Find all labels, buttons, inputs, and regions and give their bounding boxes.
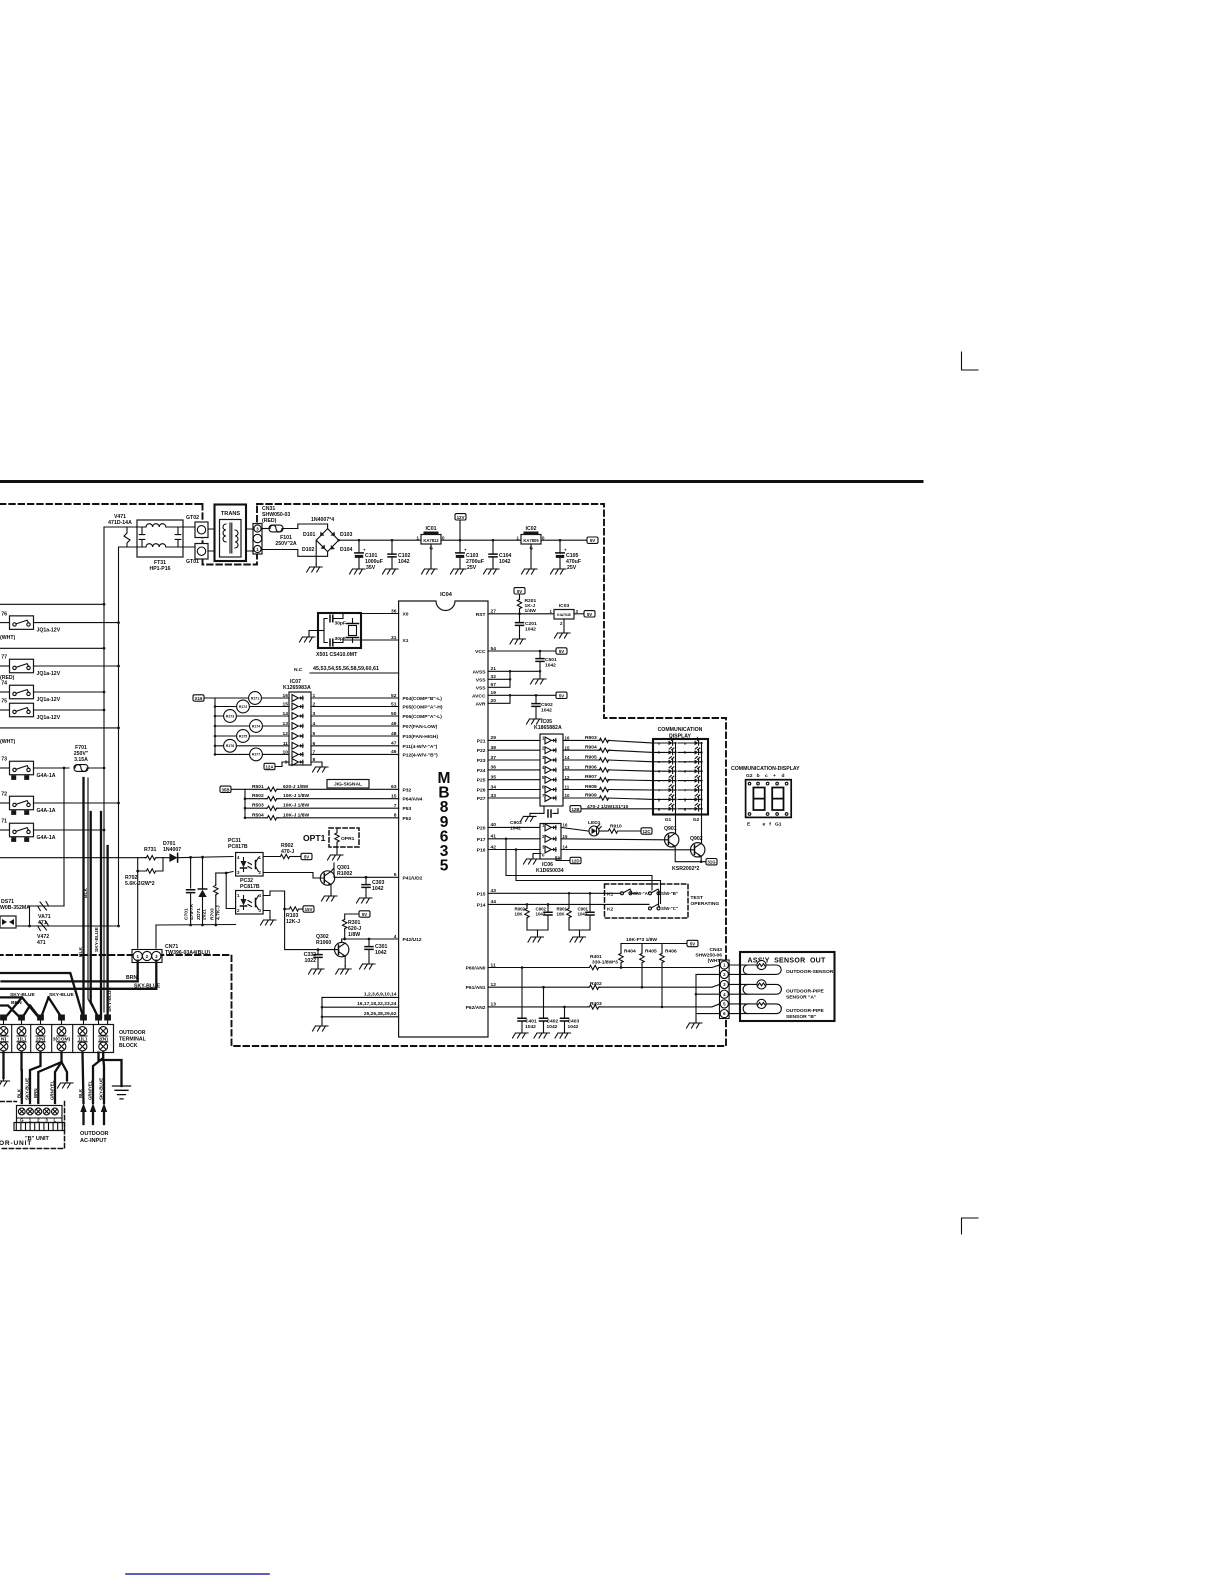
svg-text:27: 27 bbox=[491, 609, 497, 615]
connector CN43 pin 2 bbox=[720, 970, 728, 978]
svg-text:D102: D102 bbox=[302, 547, 315, 553]
buffer IC05 ch4 bbox=[545, 767, 556, 774]
capacitor C403 1042 bbox=[563, 1006, 566, 1009]
svg-text:P53: P53 bbox=[403, 806, 412, 812]
wire col6 to AC arrows bbox=[93, 1053, 104, 1104]
buffer IC07 ch3 bbox=[292, 713, 303, 720]
wire bottom rail to PC32 pin2 bbox=[156, 924, 236, 927]
surge arrester DS71 bbox=[0, 899, 30, 928]
wire R905 to display bbox=[608, 760, 653, 762]
svg-text:12C: 12C bbox=[642, 829, 651, 834]
svg-text:16: 16 bbox=[563, 823, 568, 828]
svg-text:15V: 15V bbox=[305, 907, 313, 912]
svg-text:R904: R904 bbox=[585, 745, 597, 751]
wire P15 line bbox=[488, 892, 621, 894]
wire P21 to IC05 bbox=[488, 739, 540, 741]
svg-text:1042: 1042 bbox=[398, 559, 410, 565]
node corner mark lower right bbox=[962, 1218, 979, 1234]
wire VCC line bbox=[488, 650, 556, 652]
net X16 tag input bus bbox=[193, 695, 204, 701]
node OUTDOOR AC-INPUT arrows bbox=[80, 1103, 86, 1112]
svg-text:Q901: Q901 bbox=[664, 826, 677, 832]
svg-text:71: 71 bbox=[1, 819, 7, 825]
svg-text:5V: 5V bbox=[362, 912, 367, 917]
svg-text:VSS: VSS bbox=[476, 685, 487, 691]
svg-text:44: 44 bbox=[491, 899, 497, 905]
connector CN43 pin 5 bbox=[720, 1000, 728, 1008]
net 12A tag row8 bbox=[264, 763, 275, 769]
terminal post x40.5 bbox=[37, 1015, 44, 1021]
svg-text:AVR: AVR bbox=[476, 701, 486, 707]
svg-text:C201: C201 bbox=[525, 621, 537, 627]
svg-text:34: 34 bbox=[491, 784, 497, 790]
svg-text:X16: X16 bbox=[195, 696, 203, 701]
wire col4 to B-unit pin3 bbox=[38, 1053, 61, 1104]
svg-text:5V: 5V bbox=[559, 693, 564, 698]
svg-text:SKY-BLUE: SKY-BLUE bbox=[99, 1078, 104, 1100]
svg-text:(WHT): (WHT) bbox=[0, 635, 16, 641]
ground AVSS bbox=[510, 671, 540, 676]
buffer IC05 ch2 bbox=[545, 747, 556, 754]
svg-text:36: 36 bbox=[391, 608, 397, 614]
svg-text:R406: R406 bbox=[665, 949, 677, 955]
resistor R903 bbox=[563, 739, 600, 741]
svg-text:1042: 1042 bbox=[578, 912, 588, 917]
svg-text:C701: C701 bbox=[184, 908, 190, 920]
wire : top rule line bbox=[0, 480, 922, 483]
svg-text:OUTDOOR-PIPE: OUTDOOR-PIPE bbox=[786, 988, 825, 994]
terminal column 1(L) bbox=[72, 1025, 74, 1053]
svg-text:P20: P20 bbox=[477, 825, 486, 831]
node ASSY SENSOR OUT box bbox=[729, 952, 835, 1021]
wire R909 to display bbox=[608, 798, 653, 799]
svg-text:SENSOR "B": SENSOR "B" bbox=[786, 1014, 816, 1020]
capacitor C502 1042 bbox=[527, 694, 553, 724]
terminal column 1(L) bbox=[11, 1025, 13, 1053]
wire relay 74 output bbox=[34, 691, 105, 693]
svg-text:S/W-"C": S/W-"C" bbox=[661, 906, 678, 911]
svg-text:G2: G2 bbox=[693, 817, 700, 823]
wire P26 to IC05 bbox=[488, 789, 540, 791]
resistor R504 10K-J 1/8W bbox=[244, 817, 247, 820]
wire CN71 pin1 BRN down-left bbox=[2, 961, 138, 982]
relay contact 73 G4A-1A bbox=[0, 757, 56, 779]
svg-text:R402: R402 bbox=[590, 981, 602, 987]
svg-text:P15: P15 bbox=[477, 891, 486, 897]
svg-text:R405: R405 bbox=[645, 949, 657, 955]
svg-text:5: 5 bbox=[440, 858, 449, 875]
svg-text:40: 40 bbox=[491, 822, 497, 828]
svg-text:76: 76 bbox=[1, 611, 7, 617]
svg-text:C402: C402 bbox=[547, 1019, 559, 1025]
svg-text:P26: P26 bbox=[477, 788, 486, 794]
svg-text:G1: G1 bbox=[665, 817, 672, 823]
wire P16 route to K2 bbox=[516, 850, 661, 904]
thermistor sensor 2 bbox=[729, 983, 757, 985]
LED LED1 bbox=[561, 820, 601, 836]
svg-text:R905: R905 bbox=[585, 755, 597, 761]
wire display row8 to tag bbox=[581, 808, 653, 810]
svg-text:JQ1a-12V: JQ1a-12V bbox=[37, 671, 61, 677]
wire P16 to IC06 bbox=[488, 849, 540, 851]
svg-text:15: 15 bbox=[563, 834, 568, 839]
svg-text:1042: 1042 bbox=[375, 950, 387, 956]
wire common line y728 bbox=[0, 727, 119, 729]
terminal post x61.5 bbox=[58, 1015, 65, 1021]
buffer IC07 ch7 bbox=[292, 751, 303, 758]
svg-text:W0B-352MA: W0B-352MA bbox=[0, 905, 30, 911]
terminal post x107.6 bbox=[104, 1015, 111, 1021]
transistor Q302 R1060 bbox=[316, 934, 351, 974]
wire N line to filter bbox=[119, 546, 138, 548]
svg-text:G2 b c + d: G2 b c + d bbox=[746, 773, 784, 779]
wire relay 73 output bbox=[34, 767, 70, 769]
svg-text:5V: 5V bbox=[517, 589, 522, 594]
svg-text:41: 41 bbox=[491, 834, 497, 840]
svg-text:1/8W: 1/8W bbox=[348, 932, 360, 938]
svg-text:45,53,54,55,56,58,59,60,61: 45,53,54,55,56,58,59,60,61 bbox=[313, 666, 379, 672]
svg-text:51: 51 bbox=[391, 701, 397, 707]
resistor R907 bbox=[563, 779, 600, 781]
LED cell row g bbox=[653, 798, 690, 800]
svg-text:R401: R401 bbox=[590, 954, 602, 960]
svg-text:10K-F*3 1/8W: 10K-F*3 1/8W bbox=[626, 937, 657, 943]
svg-text:25,26,28,29,62: 25,26,28,29,62 bbox=[364, 1011, 397, 1017]
wire feed to varistor chain x64 bbox=[63, 768, 65, 906]
ferrite GT02 bbox=[186, 515, 208, 538]
wire CN71 pin3 SKY-BLUE down-left bbox=[0, 961, 156, 989]
svg-text:K1: K1 bbox=[607, 892, 614, 898]
switch S/W-B bbox=[649, 889, 661, 895]
wire R907 to display bbox=[608, 779, 653, 782]
svg-text:10K-J 1/8W: 10K-J 1/8W bbox=[283, 812, 309, 818]
svg-text:48: 48 bbox=[391, 731, 397, 737]
svg-text:SKY-BLUE: SKY-BLUE bbox=[49, 992, 74, 998]
svg-text:16,17,18,22,23,24: 16,17,18,22,23,24 bbox=[357, 1001, 397, 1007]
relay contact 71 G4A-1A bbox=[0, 819, 56, 841]
svg-text:X1: X1 bbox=[403, 638, 409, 644]
LED cell row a bbox=[653, 742, 690, 744]
diode D701 1N4007 bbox=[163, 841, 233, 862]
svg-text:35: 35 bbox=[491, 775, 497, 781]
svg-text:1042: 1042 bbox=[499, 559, 511, 565]
wire X0 bbox=[361, 613, 399, 615]
svg-text:R502: R502 bbox=[252, 793, 264, 799]
wire heavy down 4 bbox=[106, 846, 108, 1018]
transistor Q901 bbox=[561, 826, 679, 847]
svg-text:S/W-"B": S/W-"B" bbox=[661, 891, 678, 896]
capacitor C402 1042 bbox=[542, 986, 545, 989]
zener ZD71 bbox=[196, 856, 208, 925]
svg-text:3.15A: 3.15A bbox=[74, 757, 88, 763]
svg-text:12: 12 bbox=[491, 982, 497, 988]
terminal column 3(COM) bbox=[51, 1025, 53, 1053]
svg-text:P05(COMP"A"-H): P05(COMP"A"-H) bbox=[403, 705, 443, 711]
resistor R731 bbox=[144, 847, 163, 871]
svg-text:K1D650034: K1D650034 bbox=[536, 868, 564, 874]
wire IC07 out P07(FAN-LOW) bbox=[311, 725, 399, 727]
LED cell row g bbox=[653, 808, 690, 810]
svg-text:D103: D103 bbox=[340, 532, 353, 538]
net tag R103 bbox=[303, 906, 314, 912]
capacitor C105 bbox=[551, 539, 582, 574]
wire L line to filter bbox=[104, 526, 137, 528]
svg-text:KA7812: KA7812 bbox=[423, 538, 439, 543]
relay contact 72 G4A-1A bbox=[0, 792, 56, 814]
node outdoor terminal block bbox=[0, 1025, 114, 1053]
connector CN43 pin 1 bbox=[720, 961, 728, 969]
svg-text:JQ1a-12V: JQ1a-12V bbox=[37, 697, 61, 703]
wire R908 to display bbox=[608, 789, 653, 792]
capacitor C501 1042 bbox=[536, 650, 557, 672]
svg-text:R703: R703 bbox=[210, 908, 216, 920]
terminal column N) bbox=[0, 1027, 8, 1036]
svg-text:R175: R175 bbox=[239, 734, 247, 738]
svg-text:75: 75 bbox=[1, 699, 7, 705]
node B unit comb strip bbox=[14, 1123, 65, 1131]
ground IC07 ch8 bbox=[311, 762, 322, 764]
wire weave SKY-BLUE 1 bbox=[0, 997, 40, 1019]
svg-text:SENSOR "A": SENSOR "A" bbox=[786, 994, 816, 1000]
svg-text:HP1-P16: HP1-P16 bbox=[149, 566, 170, 572]
svg-text:BRN: BRN bbox=[11, 1000, 22, 1006]
connector CN43 pin 6 bbox=[720, 1010, 728, 1018]
optocoupler PC31 PC817B bbox=[228, 838, 263, 876]
wire IC07 out P12(4-W/V-"B") bbox=[311, 753, 399, 755]
svg-text:29: 29 bbox=[491, 735, 497, 741]
capacitor C102 bbox=[383, 539, 411, 574]
svg-text:38: 38 bbox=[491, 745, 497, 751]
svg-text:5V: 5V bbox=[590, 538, 595, 543]
svg-text:G4A-1A: G4A-1A bbox=[37, 773, 56, 779]
wire R906 to display bbox=[608, 770, 653, 771]
svg-text:1042: 1042 bbox=[510, 826, 521, 832]
buffer IC07 ch5 bbox=[292, 733, 303, 740]
connector CN43 pin 4 bbox=[720, 990, 728, 998]
wire col5 to AC arrow 1 bbox=[83, 1053, 84, 1104]
svg-text:OUTDOOR: OUTDOOR bbox=[119, 1030, 146, 1036]
svg-text:RST: RST bbox=[476, 612, 486, 618]
node OUTDOOR-UNIT dashed corner bbox=[0, 1102, 65, 1149]
buffer IC07 ch6 bbox=[292, 742, 303, 749]
buffer IC05 ch1 bbox=[545, 737, 556, 744]
wire P24 to IC05 bbox=[488, 769, 540, 771]
svg-text:TEST: TEST bbox=[691, 895, 704, 901]
svg-text:63: 63 bbox=[391, 784, 397, 790]
LED cell row b bbox=[653, 751, 690, 753]
node corner mark upper right bbox=[962, 352, 979, 370]
svg-text:1042: 1042 bbox=[525, 627, 536, 633]
svg-text:250V"2A: 250V"2A bbox=[275, 541, 296, 547]
connector B UNIT bbox=[17, 1106, 63, 1123]
svg-text:(RED): (RED) bbox=[262, 518, 277, 524]
ground crystal bbox=[309, 631, 318, 635]
svg-text:P12(4-W/V-"B"): P12(4-W/V-"B") bbox=[403, 752, 438, 758]
svg-text:ZD71: ZD71 bbox=[196, 908, 202, 920]
wire P17 to IC06 bbox=[488, 838, 540, 840]
svg-text:P52: P52 bbox=[403, 816, 412, 822]
ferrite GT01 bbox=[186, 544, 208, 566]
svg-text:31: 31 bbox=[391, 635, 397, 641]
svg-text:JQ1a-12V: JQ1a-12V bbox=[37, 628, 61, 634]
svg-text:9: 9 bbox=[285, 760, 288, 766]
svg-text:TERMINAL: TERMINAL bbox=[119, 1037, 147, 1043]
svg-text:1042: 1042 bbox=[525, 1024, 536, 1030]
svg-text:74: 74 bbox=[1, 681, 7, 687]
wire X1 bbox=[361, 639, 399, 641]
svg-text:R172: R172 bbox=[239, 705, 247, 709]
wire IC07 out P05(COMP"A"-H) bbox=[311, 706, 399, 708]
svg-text:AVSS: AVSS bbox=[473, 669, 487, 675]
svg-text:471D-14A: 471D-14A bbox=[108, 520, 132, 526]
wire col4 branch ground bbox=[62, 1062, 68, 1080]
wire P27 to IC05 bbox=[488, 797, 540, 799]
resistor R103 12K-J bbox=[263, 891, 303, 925]
wire heavy down 2 bbox=[91, 812, 99, 1018]
svg-text:D101: D101 bbox=[303, 532, 316, 538]
svg-text:10K: 10K bbox=[557, 912, 566, 917]
buffer IC07 ch1 bbox=[292, 695, 303, 702]
resistor R201 1K-J bbox=[514, 588, 536, 616]
svg-text:P25: P25 bbox=[477, 778, 486, 784]
svg-text:P62/AN2: P62/AN2 bbox=[466, 1005, 486, 1011]
svg-text:13: 13 bbox=[491, 1002, 497, 1008]
thermistor sensor 1 bbox=[729, 964, 757, 966]
svg-text:C501: C501 bbox=[545, 657, 557, 663]
wire Q301 collector to P41 bbox=[331, 863, 399, 877]
svg-text:L: L bbox=[54, 1118, 57, 1123]
svg-text:330-1/8W*3: 330-1/8W*3 bbox=[592, 960, 618, 966]
varistor V471 471D-14A bbox=[108, 514, 132, 547]
svg-text:50: 50 bbox=[391, 711, 397, 717]
resistor R910 bbox=[599, 830, 607, 832]
wire AC bus L vertical x104 bbox=[103, 527, 105, 830]
net 35B tag bbox=[220, 786, 231, 792]
svg-text:77: 77 bbox=[1, 655, 7, 661]
wire col1 to ground bbox=[2, 1053, 4, 1079]
wire heavy down 3 bbox=[100, 812, 102, 1018]
svg-text:1042: 1042 bbox=[547, 1024, 558, 1030]
connector CN71 TW396-03A4(BLU) bbox=[132, 944, 210, 963]
svg-text:471: 471 bbox=[37, 940, 46, 946]
wire P17 route to K1 bbox=[506, 839, 652, 890]
capacitor C101 bbox=[350, 539, 383, 574]
svg-text:GT02: GT02 bbox=[186, 515, 199, 521]
buffer IC06 ch2 bbox=[545, 835, 556, 842]
resistor R501 620-J 1/8W bbox=[245, 788, 266, 790]
svg-text:P04(COMP"B"-L): P04(COMP"B"-L) bbox=[403, 696, 443, 702]
svg-text:R403: R403 bbox=[590, 1001, 602, 1007]
svg-text:37: 37 bbox=[491, 755, 497, 761]
capacitor C903 1042 bbox=[510, 806, 558, 832]
svg-text:AVCC: AVCC bbox=[472, 693, 486, 699]
op-amp IC04 MCU MB89635 outline bbox=[399, 601, 488, 1037]
svg-text:IC01: IC01 bbox=[426, 526, 437, 532]
net 5V tag to R301 bbox=[359, 911, 370, 917]
svg-text:15: 15 bbox=[391, 794, 397, 800]
svg-text:72: 72 bbox=[1, 792, 7, 798]
wire P23 to IC05 bbox=[488, 759, 540, 761]
svg-text:54: 54 bbox=[491, 646, 497, 652]
wire relay 72 output bbox=[34, 802, 119, 804]
net 12V tag bbox=[455, 514, 466, 541]
svg-text:KA7805: KA7805 bbox=[523, 538, 539, 543]
svg-text:P23: P23 bbox=[477, 758, 486, 764]
wire P22 to IC05 bbox=[488, 749, 540, 751]
svg-text:73: 73 bbox=[1, 757, 7, 763]
svg-text:OR-UNIT: OR-UNIT bbox=[0, 1140, 32, 1147]
svg-text:OPR1: OPR1 bbox=[341, 836, 355, 842]
wire IC07 out P04(COMP"B"-L) bbox=[311, 697, 399, 699]
svg-text:GT01: GT01 bbox=[186, 559, 199, 565]
svg-text:12: 12 bbox=[283, 731, 289, 737]
terminal post x3.5 bbox=[0, 1015, 7, 1021]
svg-text:P41/UD2: P41/UD2 bbox=[403, 875, 423, 881]
svg-text:IC04: IC04 bbox=[440, 592, 453, 598]
ground pullups 2 bbox=[569, 930, 590, 934]
svg-text:SKY-BLUE: SKY-BLUE bbox=[107, 987, 113, 1012]
svg-text:52: 52 bbox=[391, 693, 397, 699]
wire thin down bbox=[88, 778, 99, 1018]
svg-text:35B: 35B bbox=[221, 787, 229, 792]
svg-text:R910: R910 bbox=[610, 824, 622, 830]
svg-text:11: 11 bbox=[491, 962, 496, 968]
svg-text:(WHT): (WHT) bbox=[0, 739, 16, 745]
svg-text:25V: 25V bbox=[567, 565, 577, 571]
buffer IC05 ch6 bbox=[545, 786, 556, 793]
svg-text:D104: D104 bbox=[340, 547, 353, 553]
resistor R503 10K-J 1/8W bbox=[244, 807, 247, 810]
svg-text:G4A-1A: G4A-1A bbox=[37, 835, 56, 841]
svg-text:R903: R903 bbox=[585, 735, 597, 741]
svg-text:R731: R731 bbox=[144, 847, 157, 853]
svg-text:1N4007: 1N4007 bbox=[163, 847, 181, 853]
LED cell row e bbox=[653, 780, 690, 782]
ground large right of block bbox=[99, 1053, 122, 1087]
ground OPR1 bbox=[328, 852, 344, 860]
svg-text:KSR2002*2: KSR2002*2 bbox=[672, 866, 700, 872]
svg-text:BLOCK: BLOCK bbox=[119, 1043, 138, 1049]
svg-text:1,2,3,6,9,10,14: 1,2,3,6,9,10,14 bbox=[364, 991, 397, 997]
terminal column 2(N) bbox=[92, 1025, 94, 1053]
svg-text:K1865882A: K1865882A bbox=[534, 725, 562, 731]
svg-text:E e f G1: E e f G1 bbox=[747, 822, 782, 828]
svg-text:1042: 1042 bbox=[541, 708, 552, 714]
connector CN43 pin 3 bbox=[720, 980, 728, 988]
svg-text:P22: P22 bbox=[477, 748, 486, 754]
svg-text:R503: R503 bbox=[252, 803, 264, 809]
svg-text:7: 7 bbox=[394, 803, 397, 809]
svg-text:14: 14 bbox=[563, 845, 568, 850]
terminal post x21.5 bbox=[18, 1015, 25, 1021]
resistor R171 circle bbox=[204, 697, 289, 699]
net 31G tag emitters bbox=[706, 859, 717, 865]
resistor R402 bbox=[588, 985, 600, 989]
wire col3 to B-unit pin2 bbox=[30, 1053, 41, 1104]
ground MCU bottom pins bbox=[321, 997, 323, 1023]
svg-text:BRN: BRN bbox=[33, 1088, 38, 1098]
svg-text:VCC: VCC bbox=[475, 649, 486, 655]
svg-text:SKY-BLUE: SKY-BLUE bbox=[10, 992, 35, 998]
net 12B tag bbox=[570, 806, 581, 812]
svg-text:C401: C401 bbox=[525, 1019, 537, 1025]
svg-text:OUTDOOR: OUTDOOR bbox=[80, 1131, 109, 1137]
svg-text:13: 13 bbox=[283, 721, 289, 727]
resistor R902 470-J bbox=[263, 843, 301, 859]
svg-text:620-J 1/8W: 620-J 1/8W bbox=[283, 784, 309, 790]
wire TRANS to CN31 bbox=[246, 529, 254, 551]
relay contact 76 JQ1a-12V bbox=[0, 611, 61, 633]
